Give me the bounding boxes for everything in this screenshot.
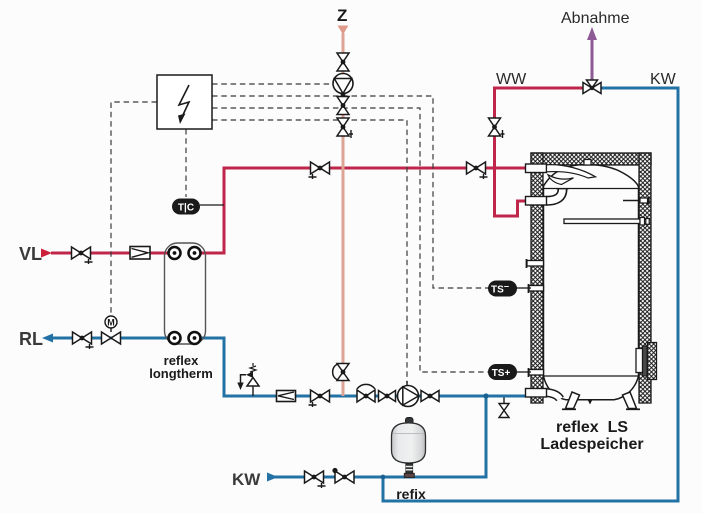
sensor T|C bbox=[172, 199, 224, 215]
svg-text:Abnahme: Abnahme bbox=[561, 10, 630, 27]
port HX bottom-left bbox=[169, 332, 181, 344]
svg-text:reflex LS: reflex LS bbox=[556, 419, 628, 436]
valve V11 (charge line) bbox=[309, 390, 330, 407]
tank foot left bbox=[562, 392, 580, 409]
wire Abnahme purple bbox=[591, 38, 594, 81]
spare stub left bbox=[527, 259, 544, 268]
wire charge line bbox=[223, 395, 529, 398]
wire VL red supply line bbox=[51, 252, 168, 255]
wire KW bottom rail bbox=[383, 500, 680, 503]
wire red zigzag to lower tank nozzle bbox=[495, 168, 529, 216]
svg-text:T|C: T|C bbox=[178, 203, 194, 214]
stub TS+ sensor bbox=[529, 368, 544, 377]
tank bottom drain stub bbox=[588, 401, 592, 405]
motor valve V10 (RL) bbox=[102, 316, 121, 344]
controller box bbox=[157, 75, 212, 129]
wire KW right downcomer bbox=[677, 87, 680, 502]
wire red from heat exchanger to riser bbox=[200, 252, 224, 255]
svg-text:Z: Z bbox=[337, 6, 347, 25]
stub TS- sensor bbox=[529, 284, 544, 293]
valve V7 (Z bottom) bbox=[337, 118, 353, 138]
valve V17 (KW second) bbox=[335, 471, 354, 483]
valve V1 (VL shut-off) bbox=[72, 247, 93, 264]
sensor TS- bbox=[488, 281, 531, 297]
wire control line 1 to Z pump bbox=[212, 83, 333, 85]
svg-text:M: M bbox=[107, 318, 115, 328]
wire blue from heat exchanger bbox=[200, 337, 224, 340]
safety valve SV1 bbox=[237, 363, 259, 396]
valve V4 (WW line) bbox=[489, 118, 505, 138]
nozzle N2 (loading return upper, with elbow) bbox=[526, 189, 569, 205]
drain valve V15 (tank drain) bbox=[499, 398, 509, 418]
valve V9 (RL shut-off) bbox=[73, 332, 94, 349]
svg-text:VL: VL bbox=[19, 244, 42, 264]
three-way mixing valve M1 bbox=[583, 80, 601, 94]
svg-text:RL: RL bbox=[19, 329, 43, 349]
port HX top-right bbox=[189, 247, 201, 259]
wire control line 3 to TS+ bbox=[212, 108, 489, 372]
check valve RV2 (charge line) bbox=[277, 391, 296, 402]
wire KW riser to charge line bbox=[485, 396, 488, 479]
valve V14 (pump discharge) bbox=[421, 391, 439, 402]
svg-text:Ladespeicher: Ladespeicher bbox=[540, 436, 643, 453]
node sampling dot on V17 bbox=[332, 468, 337, 473]
wire control to M-valve bbox=[111, 102, 157, 316]
balancing valve V12 (charge line) bbox=[357, 384, 375, 402]
wire RL return line bbox=[52, 337, 168, 340]
flange manhole right bbox=[636, 343, 657, 380]
valve V16 (KW entry) bbox=[305, 471, 326, 488]
balancing valve V8 (Z riser) bbox=[333, 364, 349, 381]
wire KW top horizontal bbox=[601, 87, 678, 90]
pump P2 (charge pump) bbox=[398, 386, 419, 407]
node VL arrow bbox=[41, 249, 52, 258]
pump P1 (circulation) bbox=[333, 74, 353, 94]
wire control line 2 to TS- bbox=[212, 96, 489, 288]
port HX bottom-right bbox=[189, 332, 201, 344]
pump stub bbox=[406, 381, 408, 386]
wire red loading line top bbox=[223, 167, 529, 170]
svg-text:KW: KW bbox=[232, 470, 261, 489]
expansion vessel refix bbox=[392, 418, 426, 478]
sensor pocket right upper bbox=[623, 197, 649, 205]
node Abnahme arrow bbox=[587, 27, 597, 40]
valve V13 (pump suction) bbox=[379, 391, 396, 402]
wire KW riser to refix rail bbox=[382, 477, 385, 503]
node KW arrow bbox=[267, 473, 278, 482]
svg-text:refix: refix bbox=[396, 486, 426, 502]
wire refix rail bbox=[267, 476, 486, 479]
sensor pocket right long bbox=[564, 218, 649, 226]
sensor TS+ bbox=[488, 364, 531, 380]
wire WW vertical bbox=[493, 88, 496, 169]
node junction KW rail tee bbox=[381, 475, 386, 480]
nozzle N1 (loading flow, top) bbox=[526, 164, 596, 185]
tank foot right bbox=[623, 392, 641, 409]
node junction Z pump outlet bbox=[341, 93, 346, 98]
valve V5 (Z top) bbox=[337, 53, 349, 71]
svg-text:WW: WW bbox=[496, 71, 527, 88]
valve V6 (Z middle) bbox=[337, 97, 349, 115]
check valve RV1 (VL) bbox=[130, 247, 150, 260]
storage tank reflex LS: insulation jacket bbox=[531, 153, 651, 403]
nozzle N3 (cold charge, bottom) bbox=[526, 389, 561, 400]
wire red riser bbox=[223, 168, 226, 255]
svg-text:TS+: TS+ bbox=[492, 368, 511, 379]
node junction charge/KW tee bbox=[483, 393, 488, 398]
heat exchanger reflex longtherm bbox=[165, 243, 206, 344]
tank vessel body bbox=[544, 160, 639, 400]
wire control line 4 to charge pump bbox=[212, 120, 407, 383]
svg-text:longtherm: longtherm bbox=[149, 366, 213, 381]
valve V2 (loading line left) bbox=[309, 162, 330, 179]
wire control to TC sensor bbox=[185, 129, 187, 197]
wire Z circulation line bbox=[342, 33, 345, 396]
port HX top-left bbox=[169, 247, 181, 259]
wire WW horizontal bbox=[493, 87, 583, 90]
node Z arrow bbox=[338, 26, 349, 35]
node RL arrow bbox=[42, 334, 53, 343]
wire blue downcomer bbox=[223, 337, 226, 397]
valve V3 (loading line right) bbox=[467, 162, 488, 179]
svg-text:KW: KW bbox=[650, 71, 677, 88]
